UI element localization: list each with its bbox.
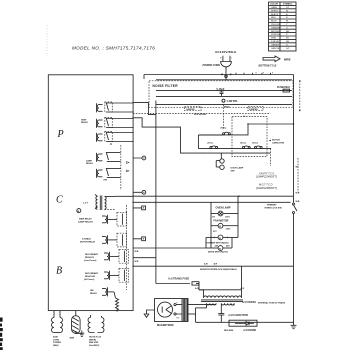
wire color legend table bbox=[269, 2, 297, 51]
relay K3 coil bbox=[97, 132, 134, 145]
svg-text:JUMPER: JUMPER bbox=[186, 109, 195, 111]
svg-text:ORANGE: ORANGE bbox=[271, 26, 281, 29]
svg-text:(WHI): (WHI) bbox=[53, 345, 59, 347]
svg-text:BLACK: BLACK bbox=[271, 13, 279, 16]
svg-text:BR: BR bbox=[286, 31, 289, 33]
connector pin circle A bbox=[142, 156, 146, 160]
svg-text:MONITOR INTERLOCK SW(DOUBLE): MONITOR INTERLOCK SW(DOUBLE) bbox=[200, 269, 237, 271]
svg-text:POWER CORD: POWER CORD bbox=[203, 64, 221, 67]
svg-text:WIRE: WIRE bbox=[284, 58, 291, 61]
svg-text:RELAY: RELAY bbox=[81, 121, 88, 124]
svg-text:S/W: S/W bbox=[231, 171, 235, 173]
capacitor C1 0.15uF bbox=[217, 88, 225, 96]
svg-text:MOTOR: MOTOR bbox=[272, 140, 280, 142]
switch S4 bbox=[252, 143, 262, 149]
svg-text:ASM: ASM bbox=[70, 337, 75, 340]
svg-text:M: M bbox=[219, 226, 221, 228]
svg-text:CORD: CORD bbox=[53, 339, 60, 341]
svg-text:INTERNAL FUSE IN TRANS: INTERNAL FUSE IN TRANS bbox=[258, 303, 286, 305]
transformer T1 filament winding bbox=[207, 303, 217, 308]
wire below switches bbox=[208, 152, 271, 154]
svg-text:FAN MTR: FAN MTR bbox=[89, 341, 99, 344]
wire switch row1 line bbox=[198, 124, 248, 135]
svg-text:GRAY: GRAY bbox=[271, 6, 278, 9]
magnetron chassis ground bbox=[144, 310, 154, 317]
svg-text:H.V.DIODE: H.V.DIODE bbox=[244, 329, 257, 332]
resistor R1 bbox=[116, 298, 119, 312]
wire switch row2 line bbox=[198, 148, 270, 150]
svg-text:OVEN LAMP: OVEN LAMP bbox=[216, 206, 231, 209]
wire stirrer feed bbox=[205, 237, 207, 248]
svg-text:INTER LOCK S/W: INTER LOCK S/W bbox=[265, 208, 282, 210]
relay contact dashed column bbox=[120, 145, 122, 190]
svg-text:AC120V/60Hz: AC120V/60Hz bbox=[215, 50, 237, 54]
scan artifact left edge bbox=[0, 318, 3, 350]
scan fold dotted line top left bbox=[46, 25, 48, 56]
svg-text:DOOR LAMP: DOOR LAMP bbox=[231, 166, 244, 169]
wire plug to rail left bbox=[143, 75, 145, 80]
wire jumper dashed row bbox=[133, 112, 270, 114]
svg-text:DRIVE MOTOR(21V): DRIVE MOTOR(21V) bbox=[208, 252, 228, 254]
svg-text:YELLOW: YELLOW bbox=[271, 24, 281, 26]
connector pin square A bbox=[142, 206, 146, 210]
wire rail y202 bbox=[133, 201, 291, 203]
svg-text:(WH/R): (WH/R) bbox=[89, 339, 96, 341]
wire drive return bbox=[231, 237, 233, 248]
svg-text:SECONDARY: SECONDARY bbox=[85, 253, 99, 256]
svg-text:W: W bbox=[296, 167, 298, 169]
svg-text:POWER: POWER bbox=[53, 342, 61, 344]
relay K5 coil bbox=[97, 168, 121, 182]
svg-text:M: M bbox=[219, 238, 221, 240]
relay K6 coil bbox=[102, 212, 127, 226]
wire right rail upper bbox=[293, 75, 295, 197]
wire monitor to primary right bbox=[241, 266, 243, 290]
label hood fan motor bbox=[89, 337, 102, 347]
relay K10 coil bbox=[102, 287, 114, 296]
svg-text:GREEN: GREEN bbox=[271, 44, 279, 46]
svg-text:HW: HW bbox=[90, 290, 94, 292]
switch S3 bbox=[240, 143, 250, 149]
svg-text:(10A4P22248/26"T): (10A4P22248/26"T) bbox=[256, 176, 277, 179]
relay K1 coil bbox=[97, 102, 134, 112]
dashed vertical link relays bbox=[125, 205, 127, 290]
junction dot row1 bbox=[247, 123, 249, 125]
svg-text:H.V.TRANS: H.V.TRANS bbox=[243, 301, 257, 304]
door lamp switch S5 bbox=[216, 153, 244, 173]
rail connector ticks bbox=[236, 73, 271, 75]
magnetron box bbox=[155, 299, 189, 322]
wire drive motor feed bbox=[133, 247, 206, 249]
svg-text:MAIN RELAY: MAIN RELAY bbox=[79, 217, 92, 220]
fuse F1 20A body bbox=[283, 89, 290, 92]
svg-text:RELAY: RELAY bbox=[90, 292, 97, 295]
svg-text:WHITE: WHITE bbox=[271, 10, 279, 12]
svg-text:MOTOR RELAY: MOTOR RELAY bbox=[80, 240, 96, 243]
svg-text:M: M bbox=[219, 249, 221, 251]
magnetron filter choke hatching bbox=[182, 299, 187, 322]
svg-text:24V: 24V bbox=[226, 244, 230, 247]
loads ladder left vertical bbox=[210, 202, 212, 248]
svg-text:REF ASM: REF ASM bbox=[224, 329, 234, 332]
wire bottom rail bbox=[196, 321, 294, 323]
svg-text:BLUE: BLUE bbox=[271, 21, 277, 23]
earth ground right bbox=[291, 322, 297, 328]
noise filter wire row 2 bbox=[156, 95, 292, 97]
relay K9 coil bbox=[104, 269, 128, 283]
wire resistor link bbox=[114, 292, 116, 298]
svg-text:1.2W BTL: 1.2W BTL bbox=[227, 100, 239, 103]
svg-text:STIRRER MOTOR(24V): STIRRER MOTOR(24V) bbox=[206, 241, 229, 244]
svg-text:SECONDARY: SECONDARY bbox=[85, 272, 99, 275]
svg-text:JUMPER: JUMPER bbox=[249, 109, 258, 111]
loads ladder right vertical bbox=[237, 196, 239, 237]
relay K2 coil bbox=[97, 118, 134, 128]
svg-text:H.V.CAPACITOR: H.V.CAPACITOR bbox=[229, 314, 248, 317]
svg-text:(N.O.): (N.O.) bbox=[240, 143, 246, 145]
svg-text:O: O bbox=[286, 27, 288, 29]
switch S2 bbox=[208, 143, 218, 149]
svg-text:VRS MODEL: VRS MODEL bbox=[194, 114, 207, 116]
svg-text:HOOD F.C.B: HOOD F.C.B bbox=[89, 337, 102, 339]
wire monitor interlock line bbox=[133, 265, 294, 267]
hood lamp component bbox=[72, 311, 85, 337]
svg-text:G/Y: G/Y bbox=[286, 48, 290, 50]
magnetron tube MG1 bbox=[158, 302, 183, 320]
wire row1 to row2 left drop bbox=[197, 135, 199, 149]
noise filter inner top wire bbox=[156, 79, 292, 81]
relay K4 coil bbox=[97, 152, 121, 162]
connector circled B bbox=[77, 209, 81, 213]
svg-text:L.V.T: L.V.T bbox=[83, 203, 89, 205]
vertical wire mid bus bbox=[155, 100, 157, 283]
dashed vertical right upper bbox=[299, 80, 301, 111]
svg-text:GRN/YEL: GRN/YEL bbox=[271, 48, 281, 50]
svg-text:B: B bbox=[56, 266, 62, 277]
relay K7 coil bbox=[102, 233, 127, 247]
wire L top rail bbox=[144, 74, 294, 76]
relay K8 coil bbox=[104, 250, 128, 264]
svg-text:C: C bbox=[56, 195, 63, 206]
wire jumper to switch row1 bbox=[223, 105, 225, 130]
svg-text:PURPLE: PURPLE bbox=[271, 34, 280, 36]
wire primary feed bbox=[199, 284, 242, 290]
hv diode D1 bbox=[229, 320, 257, 326]
svg-text:(LAMP RELAY): (LAMP RELAY) bbox=[78, 220, 93, 223]
svg-text:(Low Power): (Low Power) bbox=[84, 259, 97, 262]
fan motor M1 bbox=[211, 223, 238, 233]
jumper A dashed box bbox=[185, 106, 202, 110]
connector pin square B bbox=[142, 237, 146, 241]
svg-text:0.15uF: 0.15uF bbox=[217, 88, 225, 91]
svg-text:W.B: W.B bbox=[135, 251, 139, 253]
connector pin circle B bbox=[142, 190, 146, 194]
wire rail y196 bbox=[133, 195, 294, 197]
oven lamp LP1 bbox=[211, 211, 238, 218]
connector arrow marks inside box bbox=[126, 162, 129, 172]
stirrer motor M2 bbox=[206, 235, 238, 244]
transformer LVT bbox=[83, 195, 133, 211]
wire short stub W.R bbox=[133, 257, 156, 259]
noise filter wire row 1 bbox=[156, 90, 292, 92]
svg-text:(N.O.): (N.O.) bbox=[252, 143, 258, 145]
svg-text:RELAY B2: RELAY B2 bbox=[85, 275, 96, 278]
svg-text:RED: RED bbox=[271, 17, 276, 19]
line noise filter component bbox=[52, 311, 63, 333]
svg-text:MODEL NO. : SMH7175,7174,71: MODEL NO. : SMH7175,7174,7176 bbox=[72, 46, 155, 51]
svg-text:SYMBOL: SYMBOL bbox=[283, 4, 293, 6]
svg-text:BOTTOM T.C.B: BOTTOM T.C.B bbox=[259, 65, 277, 68]
svg-text:(10A4P22988/84"T): (10A4P22988/84"T) bbox=[256, 187, 277, 190]
svg-text:VRSO: VRSO bbox=[224, 107, 230, 109]
dashed vertical below switch box bbox=[269, 149, 271, 166]
svg-text:W.B: W.B bbox=[296, 201, 300, 203]
svg-text:FUSE(20A): FUSE(20A) bbox=[277, 86, 290, 89]
svg-text:24V: 24V bbox=[215, 244, 219, 247]
svg-text:HW: HW bbox=[104, 180, 108, 182]
svg-text:(Hi Power): (Hi Power) bbox=[84, 278, 95, 281]
svg-text:125V: 125V bbox=[225, 217, 230, 219]
svg-text:CAPACITOR: CAPACITOR bbox=[272, 142, 285, 145]
power cord plug bbox=[220, 56, 233, 67]
svg-text:MAGNETRON: MAGNETRON bbox=[157, 324, 174, 327]
junction tick jumper bbox=[223, 104, 224, 105]
noise filter wire row 3 bbox=[156, 104, 292, 106]
svg-text:S-TABLE: S-TABLE bbox=[82, 237, 91, 240]
noise filter dashed box bbox=[149, 81, 293, 108]
primary interlock switch S6 bbox=[293, 196, 297, 266]
hood fan motor component bbox=[88, 315, 104, 333]
hv capacitor C2 bbox=[218, 314, 224, 323]
transformer T1 core bbox=[201, 300, 243, 302]
svg-text:120V: 120V bbox=[226, 228, 231, 230]
svg-text:A.R: A.R bbox=[204, 263, 208, 266]
wire filament down bbox=[195, 308, 197, 322]
comp1 second lead bbox=[59, 311, 61, 316]
wire direction arrow symbol bbox=[263, 56, 291, 62]
wire step from box to switch row1 bbox=[133, 118, 208, 153]
label line noise filter bbox=[53, 336, 61, 347]
svg-text:LAMP: LAMP bbox=[86, 160, 93, 163]
drive motor M3 bbox=[206, 244, 232, 253]
svg-text:W.R: W.R bbox=[135, 261, 139, 263]
svg-text:NOISE FILTER: NOISE FILTER bbox=[153, 84, 179, 88]
svg-text:GY: GY bbox=[286, 7, 290, 9]
hv trans fuse symbol bbox=[156, 282, 199, 285]
svg-text:H.V.TRANS FUSE: H.V.TRANS FUSE bbox=[169, 277, 190, 280]
wire row1 feed to right rail bbox=[248, 123, 294, 125]
svg-text:P: P bbox=[57, 129, 64, 140]
junction dots on control box edge bbox=[132, 102, 133, 267]
power cord ground drop bbox=[221, 67, 231, 80]
svg-text:(N.O.): (N.O.) bbox=[208, 143, 214, 145]
wire secondary to capacitor bbox=[220, 308, 222, 313]
control board box bbox=[48, 75, 133, 311]
svg-text:W.R: W.R bbox=[296, 193, 300, 195]
svg-text:PRIMARY: PRIMARY bbox=[267, 204, 277, 207]
svg-text:A.R: A.R bbox=[195, 287, 199, 290]
svg-text:PINK: PINK bbox=[271, 38, 277, 40]
svg-text:RELAY: RELAY bbox=[86, 162, 93, 165]
connector pin stubs bbox=[133, 158, 142, 239]
transformer T1 primary winding bbox=[199, 290, 242, 298]
wire filament links bbox=[188, 305, 216, 314]
wire step 2 bbox=[133, 103, 156, 115]
junction dot rail y196 bbox=[238, 195, 240, 197]
svg-text:21V: 21V bbox=[213, 231, 217, 233]
switch S1 (N.O.) bbox=[198, 128, 230, 135]
svg-text:(Gra/WHT): (Gra/WHT) bbox=[89, 344, 100, 347]
jumper B dashed box bbox=[248, 106, 263, 110]
svg-text:G: G bbox=[286, 44, 288, 46]
svg-text:COLOR: COLOR bbox=[270, 4, 278, 6]
dashed enclosure around S3 S4 bbox=[232, 117, 267, 157]
wire right rail lower bbox=[293, 266, 295, 323]
fuse F2 1.2W BTL bbox=[222, 99, 238, 103]
dashed vertical right mid bbox=[297, 158, 299, 192]
svg-text:RELAY B: RELAY B bbox=[85, 256, 94, 259]
label motor capacitor bbox=[269, 140, 272, 142]
svg-text:BROWN: BROWN bbox=[271, 31, 280, 33]
svg-text:S.BLUE: S.BLUE bbox=[271, 41, 279, 43]
svg-text:ASM: ASM bbox=[53, 336, 58, 339]
svg-text:A.R: A.R bbox=[214, 263, 218, 266]
svg-text:FAN MOTOR: FAN MOTOR bbox=[214, 219, 229, 222]
transformer T1 secondary winding bbox=[221, 303, 234, 308]
